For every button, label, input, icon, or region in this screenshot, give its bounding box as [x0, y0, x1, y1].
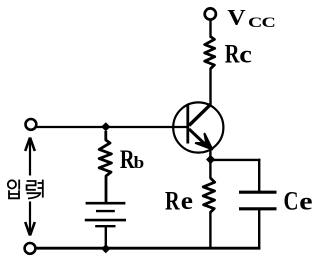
- junction node base-Rb: [101, 122, 110, 131]
- label Vcc: [227, 5, 275, 30]
- svg-text:e: e: [181, 187, 193, 215]
- junction node emitter: [206, 155, 215, 164]
- wire emitter to node: [209, 150, 211, 179]
- terminal Vcc: [205, 8, 216, 19]
- wire Ce top: [258, 159, 260, 193]
- wire battery to bottom rail: [105, 226, 107, 248]
- wire Rc to collector: [209, 68, 211, 105]
- label Rb: [120, 146, 144, 175]
- junction node battery-rail: [101, 244, 110, 253]
- resistor Rc: [205, 37, 215, 69]
- input arrow shaft lower: [29, 202, 31, 234]
- label Ce: [284, 187, 313, 216]
- battery B1 plate2 short: [96, 210, 115, 212]
- wire emitter node to Ce: [210, 159, 261, 161]
- svg-text:b: b: [134, 153, 145, 172]
- transistor Q1 emitter arrowhead: [196, 134, 212, 149]
- terminal input top: [26, 119, 37, 130]
- wire base: [36, 126, 188, 128]
- label input hangul 력: [27, 180, 43, 199]
- transistor Q1 emitter stroke: [189, 129, 208, 147]
- battery B1 plate4 short: [95, 225, 115, 227]
- svg-text:C: C: [284, 187, 299, 216]
- label Re: [165, 187, 193, 216]
- battery B1 plate3 long: [85, 219, 126, 222]
- svg-text:c: c: [239, 40, 252, 68]
- capacitor Ce bottom plate: [239, 207, 277, 210]
- svg-text:C: C: [248, 13, 262, 30]
- capacitor Ce top plate: [239, 191, 277, 194]
- svg-text:V: V: [227, 5, 245, 29]
- input arrow head up: [25, 138, 35, 152]
- input arrow head down: [25, 222, 35, 236]
- resistor Re: [203, 178, 215, 212]
- input arrow shaft upper: [29, 140, 31, 176]
- terminal input bottom: [25, 243, 36, 254]
- svg-text:e: e: [299, 187, 312, 215]
- wire Vcc to Rc: [209, 21, 211, 38]
- battery B1 plate1 long: [86, 202, 126, 205]
- wire bottom rail: [36, 247, 261, 250]
- svg-text:R: R: [225, 40, 241, 69]
- label input hangul 입: [8, 180, 19, 199]
- wire Ce bottom: [258, 209, 260, 250]
- svg-text:R: R: [165, 187, 181, 216]
- svg-text:C: C: [262, 13, 276, 30]
- transistor Q1 base bar: [186, 106, 189, 144]
- resistor Rb: [99, 131, 111, 202]
- transistor Q1 collector stroke: [189, 104, 211, 125]
- wire Re to bottom rail: [209, 212, 211, 250]
- transistor Q1 body: [173, 102, 223, 152]
- label Rc: [225, 40, 252, 69]
